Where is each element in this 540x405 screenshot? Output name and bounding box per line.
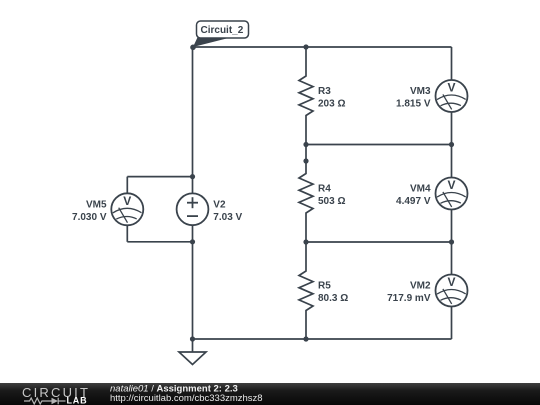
label V2 (213, 199, 242, 223)
junction dot VM5 bottom (190, 239, 195, 244)
svg-text:717.9 mV: 717.9 mV (387, 293, 431, 304)
resistor R4 (299, 145, 313, 243)
wire right column seg4 (451, 306, 453, 339)
svg-text:1.815 V: 1.815 V (396, 98, 431, 109)
flag Circuit_2 (193, 21, 249, 47)
junction dot rail2 left (303, 142, 308, 147)
svg-text:http://circuitlab.com/cbc333zm: http://circuitlab.com/cbc333zmzhsz8 (110, 393, 263, 404)
wire right column seg3 (451, 209, 453, 274)
logo resistor-diode glyph (24, 398, 66, 405)
junction dot bottom left (190, 336, 195, 341)
wire rail 3 (306, 241, 452, 243)
svg-text:VM5: VM5 (86, 199, 107, 210)
node dot mid column (303, 158, 308, 163)
voltmeter VM4 (436, 178, 468, 210)
wire VM5 bottom horizontal (127, 241, 192, 243)
junction dot bottom mid (303, 336, 308, 341)
footer bar (0, 383, 540, 405)
junction dot top mid (303, 44, 308, 49)
svg-text:7.03 V: 7.03 V (213, 212, 242, 223)
wire VM5 top vertical (126, 177, 128, 194)
svg-text:VM2: VM2 (410, 281, 431, 292)
junction dot rail3 left (303, 239, 308, 244)
svg-text:V: V (123, 194, 131, 208)
svg-text:VM3: VM3 (410, 86, 431, 97)
svg-text:VM4: VM4 (410, 183, 431, 194)
svg-text:V: V (447, 178, 455, 192)
svg-text:80.3 Ω: 80.3 Ω (318, 293, 348, 304)
ground (179, 339, 206, 365)
wire VM5 bottom vertical (126, 225, 128, 242)
wire right column seg2 (451, 112, 453, 178)
voltmeter VM2 (436, 275, 468, 307)
svg-text:203 Ω: 203 Ω (318, 98, 345, 109)
label VM5 (72, 199, 107, 223)
junction dot rail3 right (449, 239, 454, 244)
label R5 (318, 281, 348, 305)
resistor R5 (299, 242, 313, 339)
svg-text:R4: R4 (318, 183, 331, 194)
label VM2 (387, 281, 431, 305)
label VM3 (396, 86, 431, 110)
wire left column upper (node to V2 top) (192, 47, 194, 194)
wire VM5 top horizontal (127, 176, 192, 178)
label R3 (318, 86, 345, 110)
resistor R3 (299, 47, 313, 145)
svg-text:R3: R3 (318, 86, 331, 97)
wire right column seg1 (451, 47, 453, 80)
wire bottom rail (193, 338, 452, 340)
svg-text:V: V (447, 275, 455, 289)
wire rail 2 (306, 144, 452, 146)
voltage source V2 (177, 193, 209, 225)
node Circuit_2 dot (190, 45, 196, 51)
voltmeter VM5 (111, 193, 143, 225)
voltmeter VM3 (436, 80, 468, 112)
label VM4 (396, 183, 431, 207)
wire left column lower (V2 bottom to bottom rail) (192, 225, 194, 339)
junction dot rail2 right (449, 142, 454, 147)
svg-text:503 Ω: 503 Ω (318, 196, 345, 207)
svg-text:7.030 V: 7.030 V (72, 212, 107, 223)
wire top rail (193, 46, 452, 48)
svg-text:Circuit_2: Circuit_2 (201, 25, 244, 36)
svg-text:4.497 V: 4.497 V (396, 196, 431, 207)
label R4 (318, 183, 345, 207)
svg-text:LAB: LAB (67, 396, 88, 405)
svg-text:V: V (447, 81, 455, 95)
svg-text:V2: V2 (213, 199, 226, 210)
svg-text:R5: R5 (318, 281, 331, 292)
junction dot VM5 top (190, 174, 195, 179)
